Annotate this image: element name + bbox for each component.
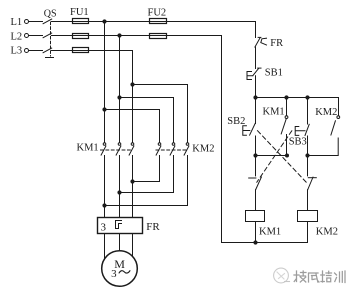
junction dot right node — [305, 153, 309, 157]
wire L3 main vertical lower — [132, 156, 134, 218]
wire bus corner to KM2 aux — [338, 98, 340, 116]
svg-text:FU1: FU1 — [70, 7, 89, 18]
wire SB2 to left node — [255, 136, 257, 156]
junction dot bus SB3 — [305, 95, 309, 99]
terminal L1 — [25, 20, 29, 24]
wire L1 main vertical lower — [104, 156, 106, 218]
wire tap L1 to KM2 column A — [105, 110, 160, 143]
interlock NC contact right branch — [308, 177, 317, 190]
junction dot swap on L1 — [102, 203, 106, 207]
contactor KM1 main contact pole1 — [101, 143, 106, 155]
wire L1 main vertical upper — [104, 22, 106, 143]
svg-text:KM1: KM1 — [263, 107, 285, 118]
wire FR to motor phase3 — [132, 234, 134, 256]
junction dot row1 / L1 drop — [102, 19, 106, 23]
contactor KM1 main contact pole3 — [129, 143, 134, 155]
wire right node to right NC — [307, 156, 309, 176]
wire L2 to QS — [29, 35, 43, 37]
wire bus to SB3 — [307, 98, 309, 125]
wire left NC to KM1 coil — [255, 190, 257, 211]
wire KM1 coil to bottom return — [255, 222, 257, 243]
switch QS linkage end tick — [46, 57, 54, 59]
junction dot left node — [253, 153, 257, 157]
svg-text:KM1: KM1 — [259, 226, 281, 237]
switch QS linkage (dashed) — [50, 22, 52, 56]
switch QS pole 1 — [43, 19, 52, 24]
svg-text:L1: L1 — [11, 17, 23, 28]
junction dot L1 tap — [102, 107, 106, 111]
svg-text:L2: L2 — [11, 31, 23, 42]
svg-text:FR: FR — [270, 38, 283, 49]
junction dot KM1 aux join — [285, 154, 289, 158]
interlock dashed link SB3 to left NC — [257, 131, 292, 182]
fuse FU1 pole1 — [73, 19, 89, 24]
svg-text:SB1: SB1 — [265, 68, 283, 79]
contactor KM1 main contact pole2 — [116, 143, 121, 155]
wire left node to left NC — [255, 156, 257, 176]
fuse FU2 pole1 — [150, 19, 167, 24]
svg-text:SB3: SB3 — [289, 136, 307, 147]
svg-text:QS: QS — [44, 9, 57, 20]
contactor KM2 aux NO contact — [331, 116, 340, 135]
coil KM1 — [246, 211, 265, 222]
wire KM2 column C lower to L1 — [105, 156, 188, 206]
junction dot bottom return — [253, 240, 257, 244]
motor M circle — [102, 251, 138, 287]
junction dot swap on L3 — [130, 179, 134, 183]
contactor KM2 main contact pole A — [156, 143, 161, 155]
svg-text:KM2: KM2 — [315, 107, 337, 118]
thermal relay FR NC contact — [255, 37, 267, 47]
wire tap L3 to KM2 column C — [133, 85, 188, 143]
wire L1 to QS — [29, 21, 43, 23]
terminal L2 — [25, 34, 29, 38]
wire L2 main vertical lower — [119, 156, 121, 218]
contactor KM1 linkage dashed — [101, 149, 132, 151]
wire KM2 aux to right node — [308, 138, 339, 156]
pushbutton SB1 (stop, NC) — [247, 68, 261, 79]
wire SB3 to right node — [307, 136, 309, 156]
junction dot L2 tap — [117, 95, 121, 99]
watermark logo icon — [274, 268, 290, 283]
wire right NC to KM2 coil — [307, 190, 309, 211]
junction dot row2 / L2 drop — [117, 33, 121, 37]
wire KM2 column B lower to L2 — [120, 156, 174, 193]
wire KM2 coil to bottom return — [307, 222, 309, 243]
thermal relay FR heater symbol — [116, 221, 122, 229]
switch QS pole 3 — [43, 48, 52, 53]
wire row2 QS to left rail corner — [52, 35, 222, 37]
wire L2 main vertical upper — [119, 36, 121, 143]
svg-text:L3: L3 — [11, 46, 23, 57]
fuse FU1 pole3 — [73, 48, 89, 53]
thermal relay FR heater box — [98, 218, 143, 234]
junction dot bus SB2 — [253, 95, 257, 99]
wire bus to KM1 aux — [286, 98, 288, 116]
svg-text:FR: FR — [146, 221, 160, 233]
fuse FU2 pole2 — [150, 34, 167, 39]
terminal L3 — [25, 49, 29, 53]
svg-text:3: 3 — [101, 221, 107, 233]
interlock dashed link SB2 to right NC — [258, 131, 307, 183]
contactor KM2 main contact pole B — [170, 143, 175, 155]
contactor KM2 linkage dashed — [156, 149, 187, 151]
switch QS pole 2 — [43, 33, 52, 38]
wire L3 main vertical upper — [132, 51, 134, 143]
contactor KM1 aux NO contact — [281, 116, 288, 134]
watermark text 技成培训 — [294, 271, 345, 283]
wire tap L2 to KM2 column B — [120, 98, 174, 143]
svg-text:KM2: KM2 — [192, 144, 214, 155]
wire row3 QS to L3 corner — [52, 50, 133, 52]
pushbutton SB3 (start rev, NO) — [295, 124, 309, 135]
wire SB1 to bus — [255, 76, 257, 98]
wire row1 QS to control corner — [52, 21, 256, 23]
svg-text:KM1: KM1 — [77, 143, 99, 154]
svg-text:3: 3 — [111, 268, 117, 280]
coil KM2 — [298, 211, 318, 222]
wire control left rail — [221, 36, 223, 243]
interlock NC contact left branch — [249, 177, 262, 190]
wire FR to motor phase2 — [119, 234, 121, 251]
junction dot L3 tap — [130, 82, 134, 86]
pushbutton SB2 (start fwd, NO) — [243, 123, 256, 135]
control bus wire — [256, 97, 339, 99]
contactor KM2 main contact pole C — [184, 143, 189, 155]
wire KM2 column A lower to L3 — [133, 156, 160, 182]
junction dot swap on L2 — [117, 190, 121, 194]
wire FR to motor phase1 — [104, 234, 106, 260]
wire FR contact to SB1 — [255, 47, 257, 68]
wire bus to SB2 — [255, 98, 257, 124]
wire control bottom return — [222, 242, 308, 244]
wire KM1 aux to left node — [256, 135, 287, 156]
junction dot bus KM1 aux — [284, 95, 288, 99]
wire row1 corner down to FR contact — [255, 22, 257, 38]
svg-text:FU2: FU2 — [148, 8, 167, 19]
wire L3 to QS — [29, 50, 43, 52]
fuse FU1 pole2 — [73, 34, 89, 39]
svg-text:KM2: KM2 — [316, 226, 338, 237]
